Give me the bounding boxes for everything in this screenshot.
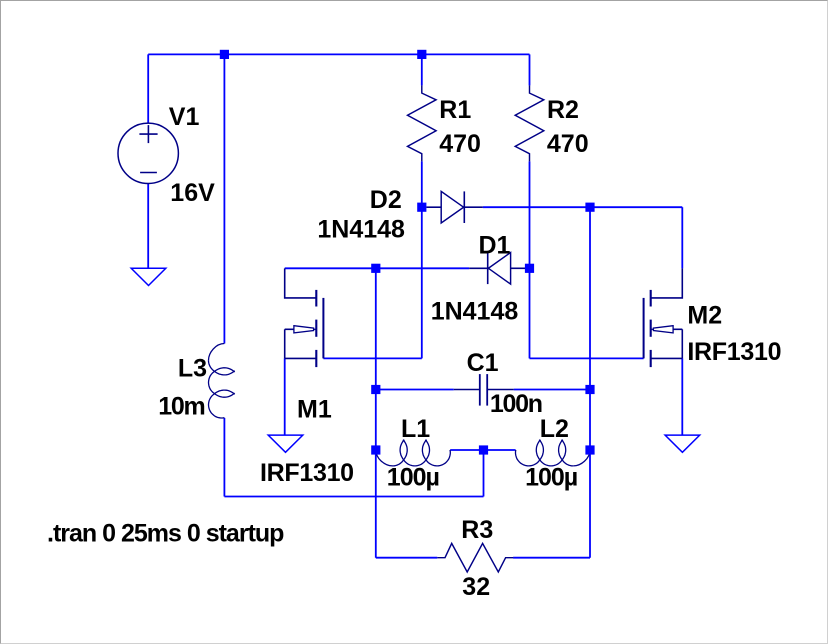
svg-text:100n: 100n bbox=[490, 390, 542, 418]
svg-text:1N4148: 1N4148 bbox=[317, 215, 405, 243]
svg-text:IRF1310: IRF1310 bbox=[687, 338, 781, 366]
inductor L1 coil bbox=[376, 440, 451, 466]
wire left node column bbox=[375, 268, 377, 557]
svg-text:D1: D1 bbox=[479, 232, 511, 260]
wire V1 top bbox=[147, 54, 149, 123]
svg-text:R3: R3 bbox=[461, 516, 493, 544]
svg-text:L1: L1 bbox=[401, 415, 430, 443]
svg-text:M1: M1 bbox=[297, 395, 332, 423]
svg-text:100µ: 100µ bbox=[525, 464, 577, 492]
svg-text:32: 32 bbox=[462, 573, 490, 601]
svg-text:.tran 0 25ms 0 startup: .tran 0 25ms 0 startup bbox=[47, 520, 284, 548]
svg-text:M2: M2 bbox=[687, 301, 722, 329]
wire R1 top lead bbox=[421, 54, 423, 85]
capacitor C1 plates bbox=[479, 374, 481, 406]
ground below M1 bbox=[268, 435, 303, 452]
junction L1 left bbox=[371, 445, 380, 454]
wire R2 bottom lead bbox=[529, 161, 531, 268]
wire V1 bottom bbox=[147, 183, 149, 268]
V1 minus sign bbox=[140, 172, 157, 174]
junction C1 right bbox=[585, 385, 594, 394]
junction D2 cathode / right column bbox=[585, 203, 594, 212]
wire R3 right lead bbox=[513, 557, 590, 559]
wire R2 top lead bbox=[529, 54, 531, 85]
junction L2 right bbox=[585, 445, 594, 454]
svg-text:1N4148: 1N4148 bbox=[431, 297, 519, 325]
svg-text:D2: D2 bbox=[370, 186, 402, 214]
transistor M1 bbox=[285, 268, 317, 298]
wire R1 bottom lead bbox=[421, 161, 423, 207]
resistor R1 bbox=[408, 85, 437, 161]
wire center tap to L2 bbox=[484, 449, 516, 451]
svg-text:L3: L3 bbox=[178, 354, 207, 382]
inductor L2 coil bbox=[516, 440, 591, 466]
wire L3 bottom bbox=[223, 418, 225, 497]
inductor L3 coil bbox=[209, 344, 235, 419]
svg-text:IRF1310: IRF1310 bbox=[260, 459, 354, 487]
svg-text:R2: R2 bbox=[547, 96, 579, 124]
svg-text:R1: R1 bbox=[439, 96, 471, 124]
wire L3 top bbox=[223, 54, 225, 343]
wire bottom row to center tap bbox=[224, 496, 483, 498]
wire D2 cathode row bbox=[483, 206, 683, 208]
ground below V1 bbox=[131, 268, 166, 285]
diode D2 bbox=[426, 206, 441, 208]
svg-text:470: 470 bbox=[439, 130, 481, 158]
wire R3 left lead bbox=[376, 557, 438, 559]
wire C1 right bbox=[514, 389, 590, 391]
junction D1 cathode / left column bbox=[371, 264, 380, 273]
junction R1 / D2 anode bbox=[417, 203, 426, 212]
wire M1 gate row bbox=[323, 357, 421, 359]
diode D1 bbox=[469, 267, 488, 269]
svg-text:470: 470 bbox=[547, 130, 589, 158]
svg-text:L2: L2 bbox=[540, 415, 569, 443]
junction C1 left bbox=[371, 385, 380, 394]
wire top rail bbox=[148, 53, 529, 55]
V1 plus sign bbox=[139, 133, 157, 135]
ground below M2 bbox=[665, 435, 700, 452]
voltage source V1 circle bbox=[118, 123, 178, 183]
svg-text:10m: 10m bbox=[158, 393, 204, 421]
svg-text:V1: V1 bbox=[169, 103, 200, 131]
wire L1 to center tap bbox=[450, 449, 483, 451]
wire M2 gate riser bbox=[529, 268, 531, 358]
junction center tap bbox=[479, 445, 488, 454]
wire center tap drop bbox=[483, 450, 485, 497]
resistor R3 bbox=[437, 543, 513, 572]
wire C1 left bbox=[376, 389, 454, 391]
wire D1 anode stub bbox=[525, 267, 530, 269]
svg-text:100µ: 100µ bbox=[387, 464, 439, 492]
resistor R2 bbox=[515, 85, 544, 161]
wire M2 drain drop bbox=[681, 207, 683, 268]
wire M1 gate riser bbox=[421, 207, 423, 358]
junction R2 / D1 anode bbox=[525, 264, 534, 273]
wire M1 source drop bbox=[284, 358, 286, 435]
wire M2 gate row bbox=[530, 357, 644, 359]
wire M2 source drop bbox=[681, 358, 683, 435]
svg-text:C1: C1 bbox=[467, 349, 499, 377]
transistor M2 bbox=[651, 268, 683, 298]
svg-text:16V: 16V bbox=[170, 179, 215, 207]
junction top rail / L3 bbox=[220, 50, 229, 59]
wire D1 cathode row bbox=[285, 267, 470, 269]
wire right node column bbox=[589, 207, 591, 558]
junction top rail / R1 bbox=[417, 50, 426, 59]
